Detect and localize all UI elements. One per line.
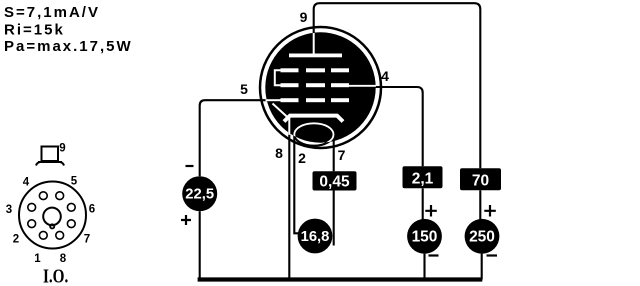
svg-text:4: 4 (23, 177, 30, 189)
meter M1 voltage 22,5 (182, 176, 217, 211)
tube V1 internal diagonal lead to cathode (273, 104, 290, 120)
socket caption I.O. (43, 264, 68, 286)
plus sign at meter M1 (181, 215, 191, 225)
wire pin5 lead to 22,5 meter (200, 100, 281, 176)
svg-text:2,1: 2,1 (412, 170, 434, 187)
tube V1 grid bracket connecting g3 and g2 (275, 70, 281, 85)
svg-text:150: 150 (412, 229, 438, 246)
svg-text:8: 8 (275, 145, 283, 161)
wire 2,1 box to 150 meter (422, 188, 424, 219)
wire 250 meter down to bus (481, 254, 483, 280)
svg-text:I.O.: I.O. (43, 264, 68, 286)
wire pin9 anode top lead to 70 box (314, 3, 481, 168)
plus sign at meter M3 (425, 205, 437, 217)
svg-text:1: 1 (34, 253, 41, 265)
socket center key (43, 208, 61, 229)
meter M3 voltage 150 (407, 219, 442, 254)
wire 0,45 box to 16,8 meter (333, 191, 335, 246)
tube V1 cathode lead white inside disc (288, 117, 290, 135)
svg-text:8: 8 (60, 253, 67, 265)
wire ground bus bottom (198, 277, 483, 281)
tube V1 envelope inner disc (265, 32, 375, 142)
svg-text:6: 6 (89, 204, 95, 216)
svg-text:250: 250 (469, 229, 495, 246)
wire pin4 lead to 2,1 box (345, 87, 423, 166)
tube V1 grid g3 row dashes (281, 68, 350, 72)
tube V1 grid g2 row dashes (281, 83, 350, 87)
svg-text:70: 70 (472, 172, 489, 189)
svg-text:S=7,1mA/V: S=7,1mA/V (4, 4, 100, 21)
svg-text:16,8: 16,8 (301, 229, 330, 245)
minus sign at meter M4 (487, 254, 498, 256)
value box 2,1 (403, 166, 443, 188)
wire pin2 heater lead to 16,8 meter (294, 135, 298, 234)
wire pin7 heater lead to 0,45 box (333, 135, 335, 172)
socket top cap symbol (36, 147, 64, 166)
wire 22,5 meter down to bus (199, 211, 201, 279)
wire 150 meter down to bus (423, 254, 425, 280)
meter M4 voltage 250 (465, 219, 500, 254)
tube V1 envelope outer circle (260, 27, 381, 148)
tube V1 heater filament circle (outer black part) (294, 123, 333, 145)
svg-text:2: 2 (13, 234, 19, 246)
tube V1 anode lead white inside disc (313, 33, 315, 54)
value box 0,45 (313, 171, 357, 190)
tube V1 anode bar (289, 54, 342, 58)
tube V1 grid g2 lead to pin4 white inside disc (348, 85, 376, 87)
svg-text:7: 7 (338, 147, 346, 163)
value box 70 (460, 168, 501, 190)
tube V1 grid g1 row dashes (281, 98, 350, 102)
socket base outline circle (19, 182, 86, 249)
svg-text:7: 7 (84, 234, 90, 246)
svg-text:2: 2 (298, 150, 306, 166)
minus sign at meter M1 (186, 165, 194, 167)
minus sign at meter M3 (429, 254, 439, 256)
socket pin holes (28, 192, 75, 239)
wire pin8 cathode lead down to bus (288, 117, 290, 280)
wire 70 box to 250 meter (479, 190, 481, 219)
svg-text:9: 9 (59, 143, 65, 155)
svg-text:9: 9 (300, 9, 308, 25)
tube V1 grid g1 lead to pin5 white inside disc (266, 99, 282, 101)
svg-text:Ri=15k: Ri=15k (4, 22, 65, 39)
plus sign at meter M4 (484, 205, 496, 217)
svg-text:0,45: 0,45 (319, 174, 350, 191)
svg-text:3: 3 (6, 204, 12, 216)
svg-text:5: 5 (71, 176, 78, 188)
tube V1 cathode (284, 116, 343, 122)
svg-text:22,5: 22,5 (185, 187, 214, 203)
svg-text:5: 5 (240, 81, 248, 97)
tube V1 heater filament circle (white part inside disc) (294, 123, 333, 145)
meter M2 current 16,8 (298, 219, 333, 254)
svg-text:Pa=max.17,5W: Pa=max.17,5W (4, 38, 133, 55)
svg-text:4: 4 (381, 68, 389, 84)
